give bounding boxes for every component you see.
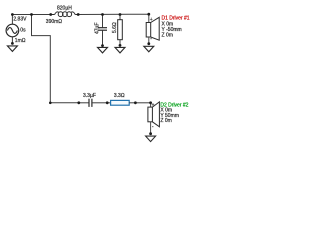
wire jog to bottom branch [32,15,79,103]
capacitor C2 3.3uF [79,99,107,107]
ground (source) [7,46,17,52]
junction dots [11,13,152,135]
svg-text:390mΩ: 390mΩ [46,19,63,25]
ground (D1) [144,46,154,52]
svg-text:+: + [152,102,155,108]
ground (D2) [146,136,156,142]
svg-text:820µH: 820µH [57,5,72,11]
svg-text:5.6Ω: 5.6Ω [112,22,118,33]
resistor R1 3.3ohm selected [107,100,135,105]
svg-text:3.3µF: 3.3µF [83,93,96,99]
svg-text:0s: 0s [20,28,26,34]
ground (C1) [98,47,108,53]
driver D1 speaker symbol [146,14,159,44]
voltage source V1 [6,15,19,44]
svg-text:2.83V: 2.83V [13,16,27,22]
svg-text:1mΩ: 1mΩ [15,38,26,44]
svg-text:Z 0m: Z 0m [160,118,171,124]
driver D2 speaker symbol [148,102,160,134]
wire top main (source to D1) [12,14,50,16]
svg-text:47µF: 47µF [94,23,100,35]
svg-text:+: + [150,17,153,23]
wire R1 to D2 [135,102,150,104]
inductor L1 820uH [51,12,78,17]
svg-text:3.3Ω: 3.3Ω [114,93,125,99]
ground (R2) [115,47,125,53]
resistor R2 5.6ohm [118,15,123,46]
svg-text:Z 0m: Z 0m [162,33,173,39]
capacitor C1 47uF [98,15,107,46]
